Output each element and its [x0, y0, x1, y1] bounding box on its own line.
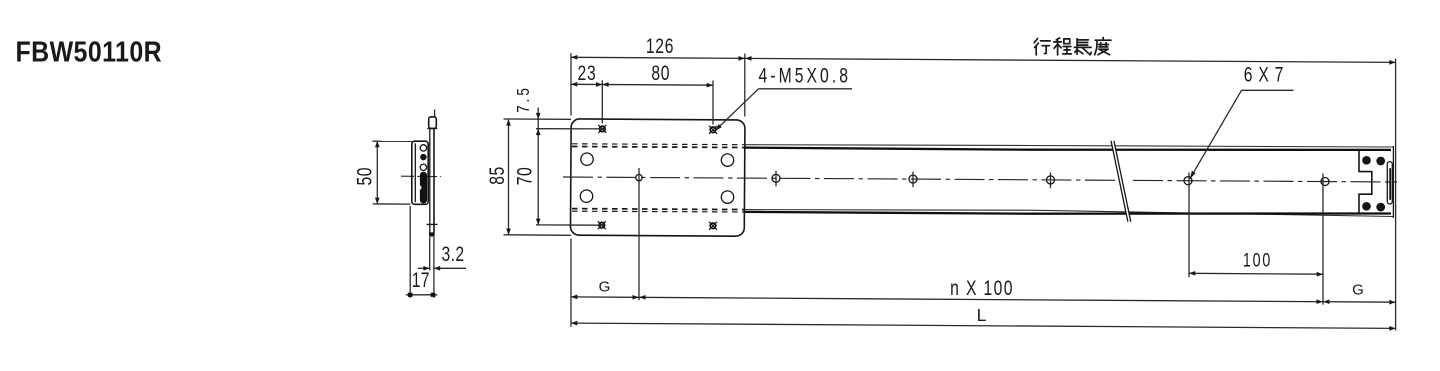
svg-text:17: 17 — [412, 268, 430, 292]
dimension 50 bottom extension — [373, 203, 411, 205]
extension line first hole down — [638, 168, 640, 300]
dimension 85 line — [508, 119, 510, 235]
label 4-M5x0.8 leader — [715, 89, 759, 131]
dimension 100 arrow left — [1189, 271, 1195, 276]
dimension 3.2 leader right part — [434, 267, 466, 269]
svg-text:85: 85 — [485, 166, 509, 185]
ball 3 (open) — [420, 164, 426, 170]
hidden rail edge dashed line top inner — [572, 147, 744, 148]
extension line rail right end full height — [1395, 59, 1397, 331]
dimension 23 arrow right — [596, 82, 602, 87]
extension line from carriage bottom-left for 17 — [409, 206, 411, 298]
rail hole 4 — [1047, 176, 1055, 184]
dimension 50 arrow up — [375, 141, 380, 147]
svg-text:100: 100 — [1243, 249, 1272, 271]
break gap white band — [1111, 140, 1130, 223]
dimension 85 top extension — [504, 118, 572, 120]
hidden rail edge dashed line bottom inner — [572, 209, 744, 210]
dimension G nx100 G line — [571, 297, 1396, 302]
end block rivet top-right — [1376, 157, 1385, 166]
stroke length arrow left — [745, 56, 751, 61]
svg-text:3.2: 3.2 — [442, 242, 465, 266]
dimension 100 line — [1189, 272, 1323, 275]
plate access hole bottom-right — [721, 191, 733, 203]
svg-text:L: L — [977, 305, 987, 325]
hole row extension top — [536, 128, 605, 130]
rail plate top stub line — [434, 110, 436, 117]
dimension 3.2 leader left part — [418, 267, 430, 269]
svg-text:7.5: 7.5 — [514, 85, 533, 113]
dimension 3.2 arrow right-pointing — [423, 266, 429, 271]
svg-text:n X 100: n X 100 — [950, 275, 1014, 299]
rail hole 4 tick — [1050, 172, 1052, 188]
hidden rail edge dashed line bottom outer — [572, 210, 744, 213]
hole row extension bottom — [536, 224, 605, 226]
dimension 80 arrow right — [707, 83, 713, 88]
label 6x7 leader — [1190, 90, 1242, 179]
rail hole 3 — [909, 175, 917, 183]
rail plate top hole tick — [427, 128, 437, 130]
white notch in insert — [417, 185, 422, 190]
dimension 23 arrow left — [571, 82, 577, 87]
stroke length arrow right — [1389, 60, 1395, 65]
M5 tapped hole top-left — [598, 125, 606, 133]
carriage lower black insert — [420, 172, 427, 204]
extension line hole column left top — [601, 80, 603, 123]
dimension G right arrow right — [1389, 300, 1395, 305]
dimension 80 arrow left — [602, 82, 608, 87]
svg-text:50: 50 — [352, 167, 376, 186]
plate access hole top-left — [581, 153, 593, 165]
stroke length label char 3: CHANG — [1074, 39, 1091, 55]
svg-text:FBW50110R: FBW50110R — [16, 36, 163, 68]
rail hole 6 — [1321, 178, 1329, 186]
break line slash A — [1111, 141, 1128, 222]
dimension 3.2 arrow left-pointing — [434, 266, 440, 271]
dimension L arrow right — [1389, 326, 1395, 331]
dimension 85 arrow up — [506, 119, 511, 125]
dimension G left arrow left — [571, 295, 577, 300]
end block outline with notch — [1359, 150, 1372, 213]
break line slash B — [1114, 141, 1131, 222]
label 4-M5x0.8 leader arrowhead — [715, 124, 722, 131]
end block vertical slot — [1387, 162, 1392, 204]
svg-text:126: 126 — [646, 34, 674, 58]
dimension 85 bottom extension — [504, 234, 572, 237]
side view centerline — [401, 175, 441, 177]
carriage inner line — [414, 143, 416, 202]
dimension 17 end blob left — [408, 293, 413, 297]
stroke length dimension line — [745, 58, 1396, 62]
svg-text:70: 70 — [512, 167, 536, 186]
rail plate body right edge — [433, 128, 435, 232]
dimension 126 arrow left — [571, 55, 577, 60]
main centerline left part — [563, 177, 1116, 180]
dimension L arrow left — [571, 321, 577, 326]
rail plate bottom hole tick — [427, 223, 438, 225]
extension line hole 5 down — [1188, 173, 1190, 278]
end block rivet bottom-left — [1362, 202, 1371, 211]
M5 tapped hole top-right — [709, 126, 717, 134]
rail plate body left edge — [429, 128, 431, 232]
dimension 7.5 arrow down (above plate top) — [536, 113, 541, 119]
extension line plate left bottom — [570, 239, 572, 327]
rail hole 5 (6x7 slot) — [1184, 177, 1192, 185]
ball 1 (open) — [420, 145, 426, 151]
rail hole 3 tick — [912, 172, 914, 188]
svg-text:G: G — [1352, 282, 1364, 299]
end block rivet bottom-right — [1376, 203, 1385, 212]
rail right end edge — [1392, 146, 1394, 218]
M5 tapped hole bottom-right — [709, 222, 717, 230]
dimension 17 end blob right — [431, 293, 436, 297]
dimension nx100 arrow left — [639, 295, 645, 300]
extension line hole 6 down — [1322, 174, 1324, 305]
rail plate top cap (rolled lip) — [429, 117, 437, 129]
rail bottom outer thick line — [745, 212, 1392, 214]
dimension 70 arrow down — [536, 219, 541, 225]
svg-text:80: 80 — [651, 61, 670, 85]
dimension 23-80 line — [571, 83, 713, 86]
extension line hole column right top — [712, 81, 714, 125]
rail hole 2 tick — [775, 171, 777, 187]
ball 2 (filled) — [420, 154, 426, 160]
M5 tapped hole bottom-left — [598, 221, 606, 229]
label 6x7 leader arrowhead — [1190, 171, 1196, 179]
dimension 50 arrow down — [375, 198, 380, 204]
dimension 7.5-70 shared line — [537, 108, 539, 226]
stroke length label char 1: XING — [1034, 39, 1050, 55]
rail hole 2 — [772, 174, 780, 182]
stroke length label char 4: DU — [1095, 38, 1111, 55]
extension line from plate right for 3.2 and 17 — [433, 237, 435, 298]
dimension 85 arrow down — [506, 229, 511, 235]
carriage outline — [412, 141, 428, 204]
svg-text:G: G — [599, 279, 611, 296]
plate access hole top-right — [721, 154, 733, 166]
svg-text:6X7: 6X7 — [1244, 62, 1289, 86]
dimension 126 line — [571, 57, 745, 58]
end block rivet top-left — [1362, 156, 1371, 165]
dimension 126 arrow right — [739, 56, 745, 61]
rail top inner thick line — [745, 148, 1392, 150]
hidden rail edge dashed line top outer — [572, 143, 744, 146]
rail top edge thin line — [745, 145, 1394, 147]
dimension 50 line — [376, 141, 378, 204]
svg-text:23: 23 — [578, 61, 597, 85]
label 6x7 underline — [1242, 89, 1294, 91]
plate access hole bottom-left — [580, 190, 592, 202]
dimension G left arrow right — [633, 295, 639, 300]
extension line from plate left for 3.2 — [429, 237, 431, 271]
dimension 7.5-70 arrow up at hole row — [536, 129, 541, 135]
main centerline right part — [1133, 180, 1397, 182]
end block slot inner bar — [1389, 168, 1391, 200]
rail plate bottom rolled lip (black) — [429, 232, 435, 236]
carriage mounting plate outline — [570, 119, 745, 236]
dimension 50 top extension — [373, 140, 414, 142]
dimension L line — [571, 323, 1396, 328]
dimension 100 arrow right — [1317, 272, 1323, 277]
rail hole 1 under plate — [636, 174, 642, 180]
stroke length label char 2: CHENG — [1054, 38, 1072, 55]
rail bottom inner thin line — [745, 210, 1394, 217]
extension line plate left top — [570, 53, 572, 115]
extension line plate right top — [744, 54, 746, 117]
svg-text:4-M5X0.8: 4-M5X0.8 — [759, 63, 852, 87]
label 4-M5x0.8 underline — [759, 88, 853, 90]
dimension G right arrow left — [1323, 299, 1329, 304]
dimension 17 line — [406, 294, 438, 296]
dimension nx100 arrow right — [1317, 299, 1323, 304]
